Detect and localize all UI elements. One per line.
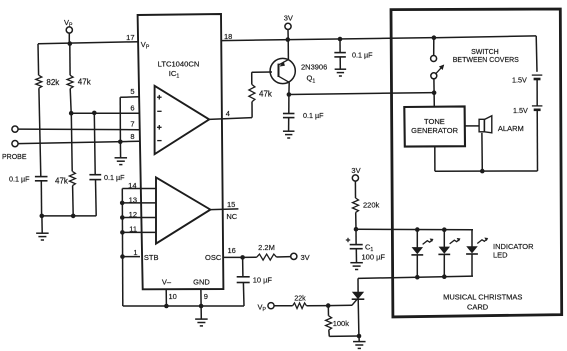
ground (C1)	[350, 262, 363, 264]
resistor 100k	[327, 306, 329, 316]
svg-text:BETWEEN COVERS: BETWEEN COVERS	[453, 57, 519, 64]
svg-text:MUSICAL CHRISTMAS: MUSICAL CHRISTMAS	[443, 293, 522, 302]
capacitor 0.1uF (collector)	[288, 95, 290, 114]
junction gate divider node	[326, 303, 331, 308]
IC LTC1040CN body	[138, 14, 224, 289]
bottom rail of card circuit	[435, 170, 538, 172]
svg-text:OSC: OSC	[205, 253, 222, 262]
svg-text:7: 7	[130, 119, 134, 128]
LED cathode bus wire	[358, 276, 473, 278]
svg-text:GENERATOR: GENERATOR	[411, 126, 458, 135]
resistor 47k (upper)	[67, 75, 73, 88]
wire pin 9 stub	[200, 289, 202, 306]
capacitor 0.1uF (right input)	[89, 174, 101, 176]
LED 3	[471, 230, 473, 247]
junction pin16 / 10uF	[240, 255, 245, 260]
wire tone generator to speaker	[465, 125, 479, 127]
switch actuator arrow	[436, 65, 444, 73]
svg-text:ALARM: ALARM	[498, 124, 524, 133]
wire pin 16 OSC	[223, 256, 243, 258]
svg-text:10: 10	[169, 292, 177, 301]
resistor 47k (lower)	[69, 171, 75, 185]
wire cap to bottom rail	[40, 181, 42, 216]
musical christmas card box	[391, 9, 562, 317]
resistor 22k	[293, 303, 307, 309]
junction switch node on 3V rail	[432, 35, 437, 40]
wire probe1 to pin 7	[18, 128, 139, 131]
svg-text:TONE: TONE	[424, 117, 445, 126]
capacitor 0.1uF (3V bypass)	[339, 39, 341, 52]
svg-text:PROBE: PROBE	[2, 154, 27, 161]
probe terminal 2	[12, 141, 18, 147]
tone generator box	[404, 106, 465, 146]
junction switch / tone generator / collector wire	[432, 90, 437, 95]
wire 47k lower to bottom rail	[72, 186, 75, 216]
svg-text:1: 1	[133, 248, 137, 257]
wire right cap column	[93, 113, 96, 174]
svg-text:2N3906: 2N3906	[301, 62, 327, 71]
wire left column down to 82k	[37, 44, 40, 76]
wire pin 11	[122, 231, 156, 233]
wire gate node to SCR gate	[328, 304, 352, 306]
resistor 2.2M	[243, 256, 257, 258]
wire speaker to bottom rail	[481, 133, 483, 171]
bottom ground bus wire	[123, 305, 244, 307]
wire pin 13	[122, 202, 156, 204]
ground (IC pin 9)	[200, 306, 202, 319]
wire VP rail down to 47k	[69, 44, 71, 76]
wire jumper to ground	[119, 142, 121, 158]
svg-text:3V: 3V	[284, 14, 293, 23]
svg-text:22k: 22k	[294, 296, 306, 303]
svg-text:10 µF: 10 µF	[253, 276, 273, 285]
svg-text:82k: 82k	[46, 78, 60, 87]
wire pin 14	[122, 188, 156, 190]
wire pin 5	[120, 96, 139, 99]
junction 3V / emitter	[286, 37, 291, 42]
junction pin6 node at 47k	[69, 111, 74, 116]
svg-text:47k: 47k	[78, 78, 92, 87]
svg-text:220k: 220k	[363, 200, 380, 209]
wire 82k to cap column	[39, 88, 41, 176]
wire battery to bottom rail	[536, 110, 538, 171]
junction LED1 anode	[415, 227, 420, 232]
wire base to 47k	[252, 71, 272, 73]
battery 1.5V upper	[532, 74, 543, 76]
svg-text:C1: C1	[365, 242, 373, 253]
wire 47k lower column	[70, 113, 73, 171]
junction SCR cathode node	[357, 334, 362, 339]
wire probe2 to pin 8	[18, 141, 139, 143]
wire VP rail to pin 17	[38, 42, 139, 44]
svg-text:16: 16	[228, 246, 236, 255]
svg-text:8: 8	[130, 132, 134, 141]
resistor 82k	[36, 75, 42, 88]
svg-text:2.2M: 2.2M	[258, 243, 275, 252]
junction bus pin 1	[120, 254, 125, 259]
junction bottom rail left	[40, 214, 45, 219]
svg-text:15: 15	[227, 200, 235, 209]
svg-text:0.1 µF: 0.1 µF	[352, 50, 373, 59]
wire right cap to bottom rail	[95, 180, 98, 216]
junction bottom rail 47k	[71, 214, 76, 219]
junction LED1 cathode	[415, 275, 420, 280]
svg-text:9: 9	[204, 292, 208, 301]
svg-text:CARD: CARD	[467, 303, 489, 312]
transistor Q1 2N3906	[287, 40, 289, 60]
ground (collector cap)	[283, 130, 295, 132]
power terminal VP (top left)	[66, 27, 72, 33]
wire tone generator bottom	[434, 147, 436, 172]
wire pin 1 STB	[123, 256, 141, 258]
speaker ALARM	[479, 119, 484, 132]
wire pin 15 NC stub	[211, 208, 238, 211]
capacitor 0.1uF (left input)	[35, 176, 48, 178]
wire 220k to C1 node	[355, 213, 357, 229]
svg-text:11: 11	[129, 225, 137, 234]
wire collector to tone generator switch node	[289, 93, 434, 95]
junction pin8 / pin5 jumper	[118, 140, 123, 145]
svg-text:GND: GND	[193, 277, 210, 286]
svg-text:47k: 47k	[259, 90, 273, 99]
SCR (thyristor)	[357, 278, 359, 292]
svg-text:0.1 µF: 0.1 µF	[303, 111, 324, 120]
junction bus pin 12	[120, 215, 125, 220]
svg-text:V–: V–	[162, 277, 172, 286]
junction collector node	[287, 92, 292, 97]
svg-text:LED: LED	[493, 250, 508, 259]
svg-text:LTC1040CN: LTC1040CN	[158, 60, 200, 69]
svg-text:18: 18	[224, 32, 232, 41]
junction C1 node	[354, 227, 359, 232]
junction LED2 cathode	[442, 274, 447, 279]
svg-text:3V: 3V	[301, 253, 310, 262]
wire 22k to gate node	[307, 305, 329, 307]
junction bus pin 13	[120, 201, 125, 206]
terminal 3V (transistor)	[285, 23, 291, 29]
wire between batteries	[536, 79, 538, 106]
svg-text:0.1 µF: 0.1 µF	[104, 173, 125, 182]
wire jumper pin5 to pin8	[119, 97, 121, 142]
junction bus pin 11	[120, 230, 125, 235]
svg-text:VP: VP	[64, 18, 73, 29]
svg-text:13: 13	[129, 195, 137, 204]
svg-text:SWITCH: SWITCH	[471, 49, 499, 56]
svg-text:3V: 3V	[351, 166, 360, 175]
junction speaker / bottom rail	[480, 169, 485, 174]
wire to tone generator	[433, 93, 435, 107]
svg-text:VP: VP	[258, 303, 267, 314]
capacitor C1 100uF	[355, 229, 357, 244]
wire pin 18 to switch	[221, 38, 434, 41]
svg-text:100 µF: 100 µF	[362, 253, 386, 262]
svg-text:5: 5	[130, 87, 134, 96]
junction LED2 anode	[442, 227, 447, 232]
bottom rail wire (input filter)	[42, 215, 97, 217]
wire pin 4 (comparator A output)	[209, 118, 252, 120]
svg-text:0.1 µF: 0.1 µF	[9, 174, 30, 183]
junction pin 9 / bus	[199, 304, 204, 309]
switch between covers	[433, 38, 435, 56]
capacitor 10uF	[242, 257, 244, 276]
wire pin 10 stub	[165, 289, 167, 306]
svg-text:14: 14	[128, 181, 136, 190]
junction pin6 node at right cap	[92, 111, 97, 116]
wire 47k to pin 4	[251, 102, 253, 118]
svg-text:NC: NC	[226, 212, 237, 221]
terminal 3V at OSC	[291, 253, 297, 259]
wire pin 12	[122, 217, 156, 219]
svg-text:6: 6	[130, 104, 134, 113]
ground (input filter)	[41, 216, 43, 233]
op-amp U1b (comparator B)	[156, 177, 210, 243]
probe terminal 1	[12, 126, 18, 132]
resistor 220k	[353, 198, 359, 213]
svg-text:1.5V: 1.5V	[512, 75, 527, 84]
op-amp U1a (comparator A)	[155, 86, 210, 154]
svg-text:STB: STB	[144, 253, 159, 262]
svg-text:100k: 100k	[333, 319, 350, 328]
svg-text:12: 12	[129, 210, 137, 219]
svg-text:47k: 47k	[55, 176, 69, 185]
junction VP rail / 47k	[68, 41, 73, 46]
junction pin 10 / bus	[164, 304, 169, 309]
svg-text:IC1: IC1	[169, 69, 180, 80]
strobe bus vertical wire	[121, 189, 124, 307]
svg-text:4: 4	[226, 109, 230, 118]
ground (pin 8 node)	[115, 157, 128, 159]
junction 3V rail / bypass cap	[338, 37, 343, 42]
wire switch node to battery	[434, 36, 536, 38]
svg-text:VP: VP	[141, 40, 150, 51]
ground (SCR cathode)	[358, 336, 360, 341]
svg-text:1.5V: 1.5V	[513, 106, 528, 115]
wire pin 6	[71, 112, 139, 114]
op-amp A input marks	[157, 96, 162, 98]
resistor 47k (base)	[249, 85, 255, 102]
wire C1 node to LED anode bus	[356, 228, 473, 231]
battery 1.5V lower	[532, 105, 543, 107]
svg-text:Q1: Q1	[307, 74, 316, 85]
svg-text:17: 17	[126, 33, 134, 42]
wire 47k to pin6 node	[70, 89, 71, 114]
LED 1	[416, 230, 418, 248]
wire VP to 22k	[274, 305, 292, 307]
wire 100k to cathode node	[328, 330, 331, 336]
LED 2	[443, 230, 445, 247]
ground (3V bypass cap)	[335, 68, 347, 70]
